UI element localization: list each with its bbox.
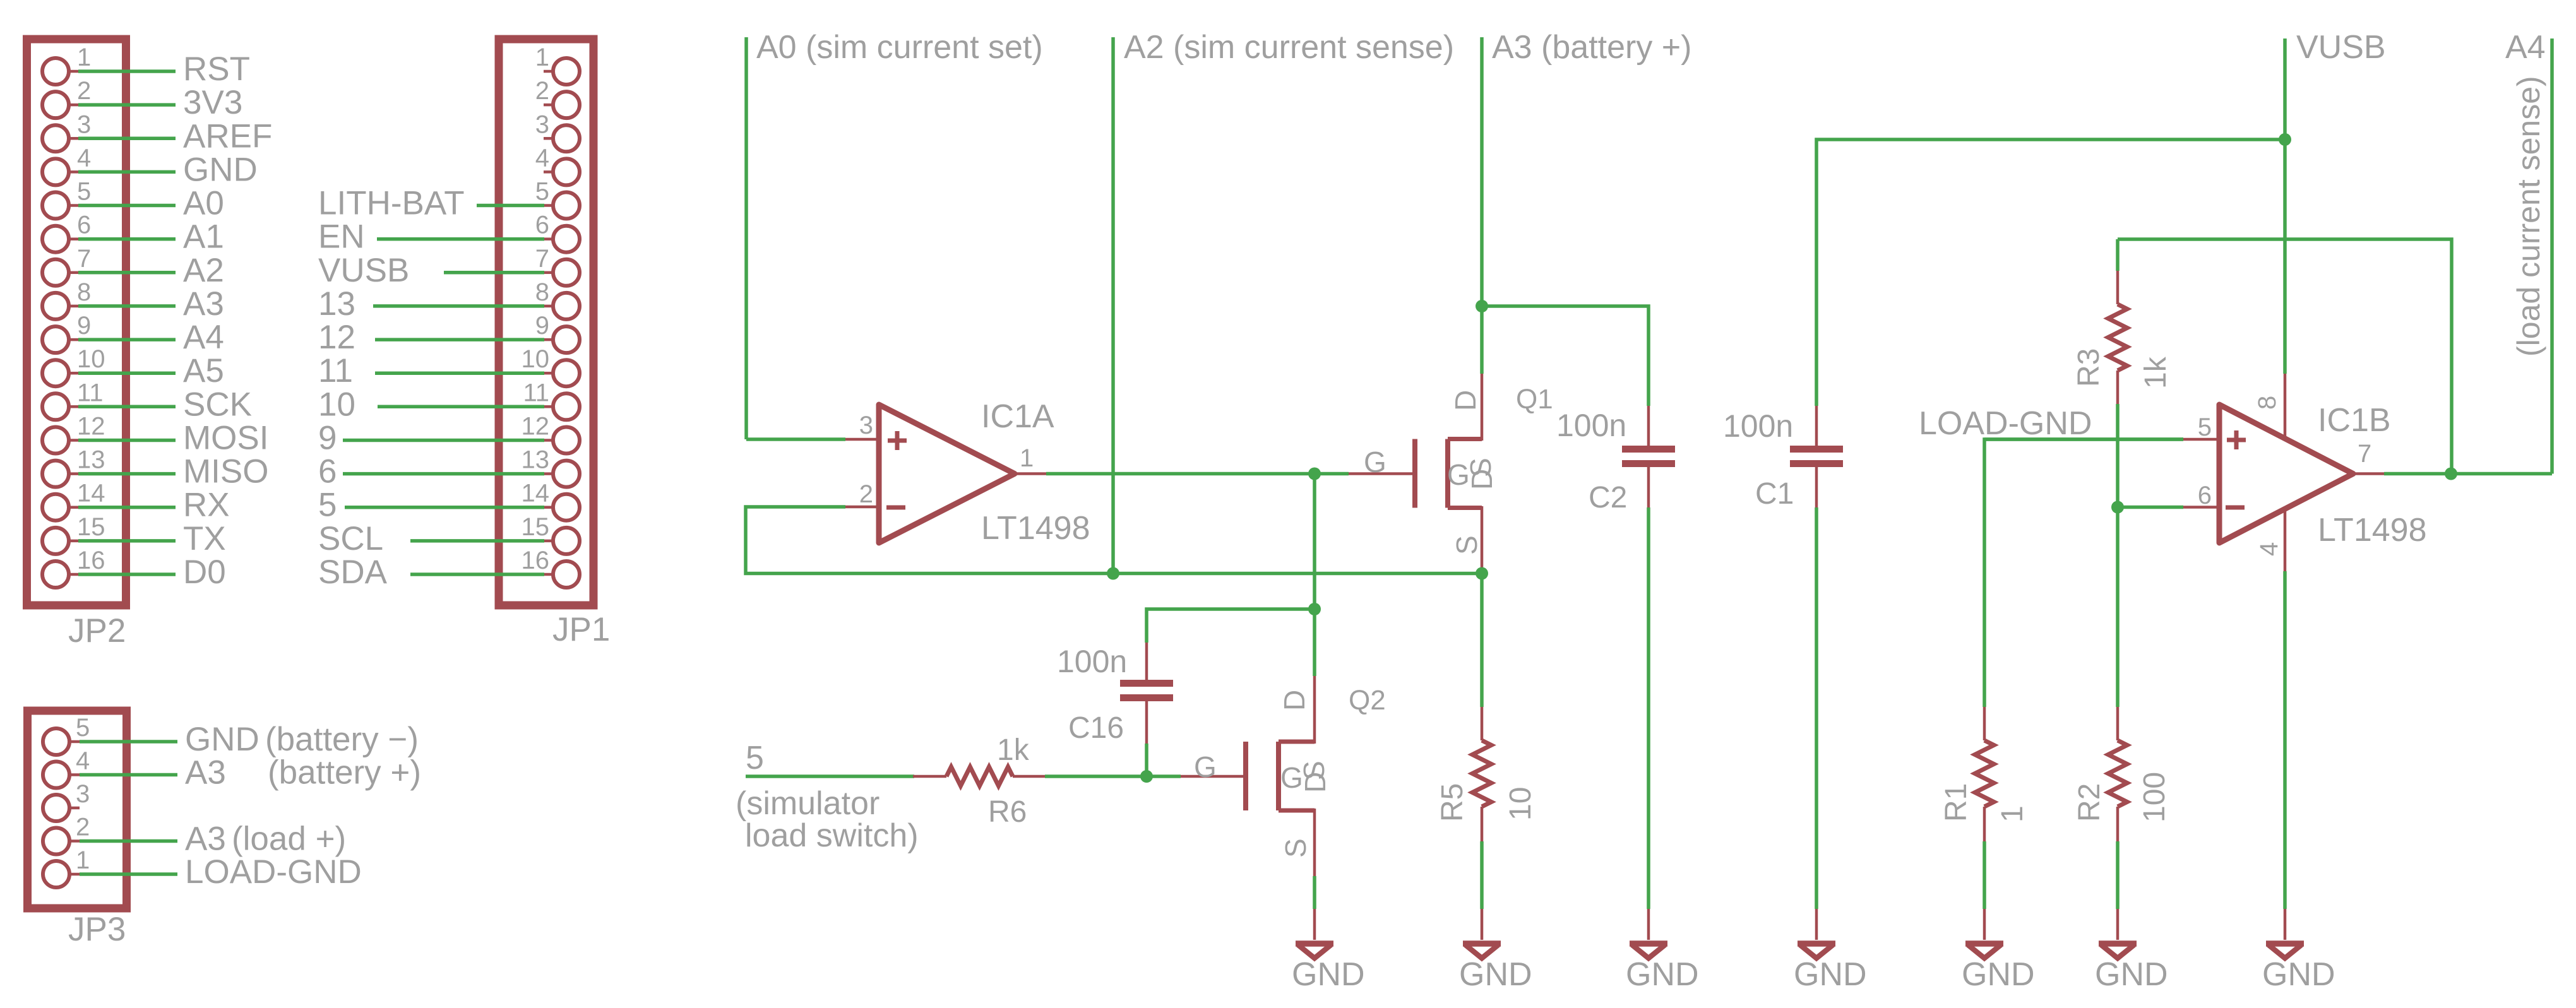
JP1 pin 1 stub (544, 70, 553, 73)
svg-text:14: 14 (77, 480, 105, 507)
op-amp IC1B pin 7 stub (2353, 472, 2384, 475)
Q1 source pin (1481, 506, 1484, 574)
svg-text:SCK: SCK (183, 386, 252, 423)
JP2 pin 9 stub (69, 338, 78, 341)
wire LOAD-GND (1984, 439, 2183, 707)
JP1 pin 10 circle (553, 360, 580, 386)
JP1 pin 11 circle (553, 393, 580, 420)
net A3 vertical wire (1480, 37, 1484, 306)
svg-text:1: 1 (77, 44, 91, 71)
svg-text:(simulator: (simulator (736, 785, 880, 822)
svg-text:A0: A0 (183, 185, 224, 222)
svg-text:8: 8 (2253, 396, 2281, 410)
wire R3 top (2116, 239, 2120, 271)
JP1 pin 6 circle (553, 226, 580, 252)
svg-text:A4: A4 (2505, 29, 2546, 66)
capacitor C2 top lead (1647, 406, 1650, 447)
svg-text:TX: TX (183, 520, 226, 557)
JP3 pin 1 stub (69, 873, 80, 876)
resistor R3 bottom lead (2116, 371, 2120, 404)
ground IC1B (2284, 909, 2287, 940)
JP2 pin 3 circle (42, 125, 69, 151)
Q2 gate stub (1181, 775, 1246, 778)
svg-text:JP1: JP1 (552, 611, 610, 648)
JP1 pin 12 circle (553, 427, 580, 454)
svg-text:GND: GND (1459, 956, 1532, 993)
JP1 pin 7 stub (544, 271, 553, 275)
resistor R1 zigzag (1975, 740, 1994, 807)
junction node IC1B output/feedback (2445, 468, 2457, 480)
JP1 pin 15 stub (544, 540, 553, 543)
resistor R2 zigzag (2108, 740, 2127, 807)
junction node C16/R6 (1140, 770, 1153, 783)
capacitor C2 plates (1622, 446, 1675, 453)
resistor R6 zigzag (946, 767, 1013, 786)
wire R5 to GND (1480, 841, 1484, 909)
svg-text:6: 6 (2198, 482, 2212, 509)
wire EN to JP1 pin 6 (377, 237, 544, 241)
svg-text:6: 6 (318, 453, 337, 490)
svg-text:R1: R1 (1940, 783, 1973, 822)
svg-text:GND: GND (1962, 956, 2035, 993)
svg-text:100n: 100n (1723, 408, 1793, 444)
wire JP3 pin 2 (80, 839, 177, 843)
svg-text:1k: 1k (2139, 356, 2173, 389)
wire JP2 pin 2 to 3V3 (78, 103, 176, 107)
JP2 pin 11 circle (42, 393, 69, 420)
svg-text:D0: D0 (183, 554, 226, 591)
svg-text:1k: 1k (997, 733, 1030, 767)
wire VUSB to JP1 pin 7 (444, 271, 544, 275)
svg-text:2: 2 (76, 814, 90, 841)
JP2 pin 4 stub (69, 170, 78, 174)
JP2 pin 3 stub (69, 137, 78, 140)
JP1 pin 4 circle (553, 158, 580, 185)
svg-text:8: 8 (77, 278, 91, 306)
svg-text:7: 7 (535, 245, 549, 273)
wire 9 to JP1 pin 12 (343, 439, 544, 442)
wire Q1 source to R5 (1480, 574, 1484, 708)
JP3 pin 1 circle (43, 861, 69, 887)
Q1 gate stub (1349, 472, 1415, 475)
JP1 pin 8 stub (544, 305, 553, 308)
Q2 source jog (1279, 809, 1315, 813)
JP1 pin 16 circle (553, 561, 580, 588)
wire Q1 drain (1480, 306, 1484, 374)
ground Q2 (1313, 909, 1316, 940)
wire 11 to JP1 pin 10 (375, 371, 544, 375)
JP2 pin 13 circle (42, 461, 69, 487)
IC1B minus sign (2226, 506, 2245, 510)
svg-text:100n: 100n (1057, 644, 1127, 679)
IC1A minus sign (886, 506, 905, 510)
svg-text:12: 12 (318, 319, 355, 356)
resistor R2 bottom lead (2116, 807, 2120, 841)
wire 13 to JP1 pin 8 (373, 304, 544, 308)
JP2 pin 14 circle (42, 494, 69, 521)
JP1 pin 8 circle (553, 293, 580, 319)
wire JP2 pin 16 to D0 (78, 572, 176, 576)
svg-text:2: 2 (77, 77, 91, 105)
wire A3 junction to C2 (1482, 306, 1649, 406)
svg-text:4: 4 (2255, 542, 2283, 556)
JP3 pin 4 stub (69, 773, 80, 776)
wire R3 to pin6 junction (2116, 404, 2120, 707)
svg-text:R5: R5 (1436, 783, 1469, 822)
svg-text:4: 4 (77, 144, 91, 172)
svg-text:LITH-BAT: LITH-BAT (318, 185, 465, 222)
JP2 pin 2 stub (69, 104, 78, 107)
wire C1 to GND (1815, 507, 1818, 909)
svg-text:MISO: MISO (183, 453, 268, 490)
wire SCL to JP1 pin 15 (410, 539, 544, 543)
svg-text:3V3: 3V3 (183, 84, 242, 121)
junction node Q1 drain/C2 (1476, 300, 1488, 312)
JP2 pin 6 circle (42, 226, 69, 252)
svg-text:S: S (1450, 535, 1483, 555)
resistor R5 zigzag (1472, 740, 1491, 807)
wire JP2 pin 12 to MOSI (78, 439, 176, 442)
svg-text:GND: GND (2095, 956, 2168, 993)
wire Q2 source to GND (1313, 876, 1316, 909)
JP2 pin 13 stub (69, 472, 78, 475)
svg-text:LT1498: LT1498 (981, 510, 1090, 547)
IC1B plus sign (2227, 438, 2246, 442)
JP1 pin 3 circle (553, 125, 580, 151)
svg-text:C16: C16 (1068, 711, 1124, 745)
wire IC1B pin 4 to GND (2283, 571, 2287, 909)
net A2 vertical wire (1111, 37, 1115, 574)
junction node R3/pin6 (2111, 501, 2124, 514)
resistor R5 top lead (1481, 707, 1484, 740)
junction node A2/feedback (1107, 567, 1119, 580)
ground R1 (1983, 909, 1986, 940)
Q1 drain jog (1448, 437, 1482, 441)
Q2 gate bar (1243, 742, 1248, 810)
wire JP2 pin 6 to A1 (78, 237, 176, 241)
connector JP3 outline (28, 711, 127, 908)
op-amp IC1B pin 4 stub (2284, 505, 2287, 571)
JP3 pin 5 stub (69, 740, 80, 744)
svg-text:3: 3 (535, 110, 549, 138)
svg-text:A3 (battery +): A3 (battery +) (1492, 29, 1691, 66)
svg-text:2: 2 (859, 480, 873, 508)
wire output to Q2 drain branch (1313, 474, 1316, 610)
JP1 pin 16 stub (544, 573, 553, 576)
JP1 pin 10 stub (544, 372, 553, 375)
wire JP2 pin 3 to AREF (78, 137, 176, 141)
capacitor C16 bottom lead (1145, 700, 1148, 744)
svg-text:4: 4 (535, 144, 549, 172)
svg-text:D: D (1299, 772, 1332, 793)
wire LITH-BAT to JP1 pin 5 (477, 204, 544, 208)
svg-text:7: 7 (77, 245, 91, 273)
wire IC1A pin 2 feedback (746, 507, 1482, 574)
svg-text:Q1: Q1 (1516, 384, 1553, 415)
wire C16 bottom (1145, 744, 1148, 776)
JP3 pin 5 circle (43, 728, 69, 755)
svg-text:R2: R2 (2073, 783, 2106, 822)
svg-text:JP2: JP2 (68, 612, 126, 649)
net A4 vertical wire (2550, 39, 2554, 474)
ground C2 (1647, 909, 1650, 940)
net 5 wire (746, 774, 914, 778)
op-amp IC1A pin 1 stub (1015, 472, 1046, 475)
op-amp IC1B triangle (2219, 405, 2353, 543)
JP2 pin 8 stub (69, 305, 78, 308)
svg-text:4: 4 (76, 747, 90, 775)
svg-text:10: 10 (318, 386, 355, 423)
svg-text:15: 15 (522, 513, 550, 541)
resistor R6 right lead (1013, 775, 1046, 778)
JP2 pin 10 stub (69, 372, 78, 375)
svg-text:7: 7 (2358, 440, 2371, 468)
svg-text:VUSB: VUSB (318, 252, 409, 289)
JP2 pin 8 circle (42, 293, 69, 319)
wire JP2 pin 4 to GND (78, 170, 176, 174)
wire JP2 pin 14 to RX (78, 506, 176, 509)
svg-text:RX: RX (183, 487, 230, 524)
wire R1 to GND (1983, 841, 1986, 909)
JP1 pin 5 circle (553, 193, 580, 219)
JP2 pin 12 stub (69, 439, 78, 442)
svg-text:EN: EN (318, 218, 365, 256)
wire IC1B output (2384, 472, 2552, 476)
net VUSB vertical wire (2283, 39, 2287, 374)
wire C2 to GND (1647, 507, 1650, 909)
svg-text:A3 (battery +): A3 (battery +) (185, 754, 421, 792)
ground R5 (1481, 909, 1484, 940)
resistor R3 zigzag (2108, 304, 2127, 371)
JP2 pin 4 circle (42, 158, 69, 185)
op-amp IC1B pin 6 stub (2183, 506, 2219, 509)
svg-text:6: 6 (535, 211, 549, 239)
wire R2 to GND (2116, 841, 2120, 909)
wire C1 to VUSB (1816, 139, 2285, 406)
wire 10 to JP1 pin 11 (378, 405, 544, 409)
IC1A plus sign (888, 439, 907, 443)
junction node Q1 source (1476, 567, 1488, 580)
svg-text:10: 10 (77, 345, 105, 373)
svg-text:1: 1 (1996, 805, 2029, 822)
svg-text:MOSI: MOSI (183, 420, 268, 457)
JP2 pin 15 circle (42, 528, 69, 554)
wire JP2 pin 15 to TX (78, 539, 176, 543)
wire 12 to JP1 pin 9 (375, 338, 544, 341)
svg-text:R3: R3 (2072, 348, 2106, 387)
svg-text:8: 8 (535, 278, 549, 306)
JP3 pin 2 stub (69, 839, 80, 843)
svg-text:GND: GND (1292, 956, 1365, 993)
svg-text:IC1B: IC1B (2318, 402, 2391, 439)
JP2 pin 1 circle (42, 58, 69, 85)
svg-text:A5: A5 (183, 352, 224, 389)
JP2 pin 10 circle (42, 360, 69, 386)
svg-text:2: 2 (535, 77, 549, 105)
junction node output branch (1308, 468, 1321, 480)
JP1 pin 5 stub (544, 204, 553, 207)
svg-text:GND: GND (2262, 956, 2335, 993)
JP2 pin 14 stub (69, 506, 78, 509)
svg-text:JP3: JP3 (68, 911, 126, 948)
svg-text:10: 10 (1504, 787, 1537, 821)
net A0 vertical wire (744, 37, 748, 439)
op-amp IC1A triangle (879, 405, 1015, 543)
wire IC1B pin 5 (1984, 437, 2183, 441)
capacitor C16 top lead (1145, 643, 1148, 681)
JP1 pin 9 circle (553, 326, 580, 353)
wire JP2 pin 5 to A0 (78, 204, 176, 208)
JP1 pin 9 stub (544, 338, 553, 341)
svg-text:16: 16 (522, 547, 550, 574)
svg-text:R6: R6 (988, 795, 1027, 829)
connector JP1 outline (499, 39, 593, 605)
svg-text:12: 12 (77, 413, 105, 441)
ground C1 (1815, 909, 1818, 940)
Q2 source pin (1313, 809, 1316, 876)
wire JP3 pin 1 (80, 872, 177, 876)
resistor R5 bottom lead (1481, 807, 1484, 841)
svg-text:A0 (sim current set): A0 (sim current set) (756, 29, 1043, 66)
svg-text:VUSB: VUSB (2296, 29, 2386, 66)
JP2 pin 5 circle (42, 193, 69, 219)
svg-text:100n: 100n (1556, 408, 1626, 443)
svg-text:9: 9 (77, 312, 91, 340)
svg-text:A3 (load +): A3 (load +) (185, 821, 346, 858)
svg-text:12: 12 (522, 413, 550, 441)
wire C16 top branch (1147, 609, 1315, 643)
op-amp IC1B pin 8 stub (2284, 374, 2287, 442)
svg-text:D: D (1278, 690, 1311, 711)
svg-text:GND: GND (1626, 956, 1699, 993)
svg-text:10: 10 (522, 345, 550, 373)
Q2 channel bar (1276, 742, 1281, 810)
svg-text:1: 1 (76, 846, 90, 874)
svg-text:15: 15 (77, 513, 105, 541)
svg-text:3: 3 (76, 780, 90, 808)
JP1 pin 2 stub (544, 104, 553, 107)
JP1 pin 13 stub (544, 472, 553, 475)
svg-text:A2 (sim current sense): A2 (sim current sense) (1124, 29, 1454, 66)
svg-text:Q2: Q2 (1349, 685, 1386, 716)
JP3 pin 3 stub (69, 807, 80, 810)
JP2 pin 5 stub (69, 204, 78, 207)
JP1 pin 15 circle (553, 528, 580, 554)
svg-text:IC1A: IC1A (981, 398, 1054, 435)
op-amp IC1A pin 2 stub (845, 506, 879, 509)
JP2 pin 7 stub (69, 271, 78, 275)
svg-text:(load current sense): (load current sense) (2511, 76, 2546, 357)
capacitor C1 top lead (1815, 406, 1818, 447)
svg-text:100: 100 (2138, 772, 2171, 822)
JP3 pin 2 circle (43, 828, 69, 855)
capacitor C1 bottom lead (1815, 466, 1818, 507)
svg-text:SCL: SCL (318, 520, 383, 557)
wire JP2 pin 13 to MISO (78, 472, 176, 476)
wire JP2 pin 9 to A4 (78, 338, 176, 341)
svg-text:GND: GND (183, 151, 258, 188)
svg-text:9: 9 (535, 312, 549, 340)
svg-text:A4: A4 (183, 319, 224, 356)
Q2 drain pin (1313, 676, 1316, 744)
wire 5 to JP1 pin 14 (345, 506, 544, 509)
JP1 pin 13 circle (553, 461, 580, 487)
wire JP2 pin 1 to RST (78, 69, 176, 73)
JP2 pin 6 stub (69, 237, 78, 240)
JP2 pin 11 stub (69, 405, 78, 408)
Q1 source jog (1448, 506, 1482, 510)
svg-text:SDA: SDA (318, 554, 388, 591)
JP2 pin 9 circle (42, 326, 69, 353)
svg-text:11: 11 (523, 379, 549, 406)
svg-text:3: 3 (859, 412, 873, 439)
JP1 pin 12 stub (544, 439, 553, 442)
resistor R2 top lead (2116, 707, 2120, 740)
wire JP2 pin 10 to A5 (78, 371, 176, 375)
wire R6 to Q2 gate (1045, 774, 1181, 778)
svg-text:9: 9 (318, 420, 337, 457)
svg-text:16: 16 (77, 547, 105, 574)
resistor R1 top lead (1983, 707, 1986, 740)
svg-text:3: 3 (77, 110, 91, 138)
resistor R6 left lead (913, 775, 946, 778)
svg-text:AREF: AREF (183, 117, 272, 155)
JP2 pin 1 stub (69, 70, 78, 73)
wire 6 to JP1 pin 13 (343, 472, 544, 476)
junction node C16/Q2 drain (1308, 603, 1321, 615)
svg-text:13: 13 (522, 446, 550, 474)
JP1 pin 14 stub (544, 506, 553, 509)
wire R3 top feedback (2118, 239, 2452, 474)
JP1 pin 11 stub (544, 405, 553, 408)
capacitor C1 plates (1790, 446, 1843, 453)
capacitor C16 plates (1120, 680, 1173, 687)
connector JP2 outline (27, 39, 126, 605)
svg-text:13: 13 (318, 285, 355, 323)
svg-text:G: G (1364, 446, 1386, 478)
op-amp IC1A pin 3 stub (845, 438, 879, 441)
svg-text:LOAD-GND: LOAD-GND (1919, 405, 2092, 442)
JP1 pin 7 circle (553, 259, 580, 286)
svg-text:11: 11 (77, 379, 104, 406)
svg-text:GND (battery −): GND (battery −) (185, 721, 419, 758)
wire SDA to JP1 pin 16 (410, 572, 544, 576)
svg-text:5: 5 (318, 487, 337, 524)
JP1 pin 3 stub (544, 137, 553, 140)
svg-text:G: G (1194, 750, 1217, 783)
wire JP3 pin 4 (80, 773, 177, 777)
svg-text:11: 11 (318, 352, 353, 389)
wire JP2 pin 7 to A2 (78, 271, 176, 275)
JP2 pin 12 circle (42, 427, 69, 454)
wire IC1A output (1046, 472, 1349, 476)
wire IC1B pin 6 (2118, 506, 2183, 509)
svg-text:5: 5 (746, 740, 764, 776)
wire JP2 pin 8 to A3 (78, 304, 176, 308)
svg-text:13: 13 (77, 446, 105, 474)
svg-text:GND: GND (1794, 956, 1867, 993)
JP1 pin 6 stub (544, 237, 553, 240)
svg-text:14: 14 (522, 480, 550, 507)
svg-text:C2: C2 (1589, 481, 1627, 514)
JP1 pin 14 circle (553, 494, 580, 521)
svg-text:S: S (1279, 838, 1312, 858)
svg-text:5: 5 (535, 178, 549, 206)
JP1 pin 4 stub (544, 170, 553, 174)
svg-text:C1: C1 (1755, 477, 1794, 511)
JP2 pin 2 circle (42, 92, 69, 118)
svg-text:RST: RST (183, 50, 250, 88)
